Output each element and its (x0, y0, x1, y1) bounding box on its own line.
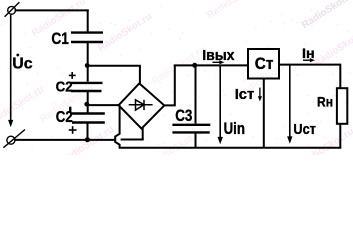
capacitor C1 (71, 33, 103, 42)
background dither speckles (0, 0, 353, 155)
wire bridge bottom to rail (142, 128, 144, 139)
wire output top rail to stabilizer (174, 64, 248, 66)
svg-text:C2: C2 (56, 79, 73, 95)
wire bridge left vertex down with hop over rail (115, 105, 119, 148)
watermark RadioSkot.ru tiles (30, 0, 88, 39)
svg-text:Iвых: Iвых (202, 48, 234, 64)
block U1 stabilizer box (248, 49, 279, 79)
wire C2 to C2' (87, 92, 89, 113)
wire stabilizer to lower rail (Ict) (263, 79, 265, 148)
svg-text:Ст: Ст (255, 55, 274, 73)
svg-text:Uст: Uст (293, 121, 316, 138)
wire lower return rail (119, 147, 342, 149)
wire stabilizer output to load (279, 65, 340, 89)
arrow Uст (voltage arrow) (289, 66, 291, 138)
svg-text:Uin: Uin (224, 120, 245, 138)
wire top rail (15, 9, 89, 11)
node C (C2' / rail junction) (85, 137, 90, 142)
wire Rн to lower rail (339, 124, 341, 148)
capacitor C2 (71, 83, 103, 91)
wire C2' to bottom rail (87, 124, 89, 140)
svg-text:C1: C1 (51, 29, 69, 48)
diode bridge VD1 (diamond) (119, 83, 165, 128)
arrow Uin (voltage arrow) (219, 66, 221, 138)
arrow Iвых (current arrow) (213, 61, 221, 63)
wire node B to bridge left (87, 104, 119, 106)
arrow Uc (source voltage arrow) (10, 15, 12, 121)
terminal X2 (bottom input) (3, 130, 25, 148)
wire node A to bridge top (87, 66, 140, 83)
svg-text:Uc: Uc (12, 55, 33, 72)
wire C3 to lower rail (195, 133, 197, 147)
svg-text:C3: C3 (175, 107, 192, 125)
node D (C3 tap) (192, 63, 197, 68)
svg-text:Rн: Rн (317, 94, 333, 110)
capacitor C2' (72, 114, 105, 123)
resistor Rн (337, 88, 347, 124)
terminal X1 (top input) (5, 2, 20, 17)
svg-text:Iст: Iст (235, 86, 255, 103)
wire upper ground rail (terminal to bridge) (15, 139, 115, 141)
wire node D to C3 (195, 65, 197, 123)
node B (C2/C2' junction) (84, 102, 89, 107)
wire C1 to C2 (87, 43, 89, 82)
arrow Iн (current arrow) (303, 59, 311, 61)
node A (C1/C2 junction) (85, 63, 90, 68)
capacitor C3 (172, 125, 210, 133)
wire drop to C1 (87, 9, 89, 31)
arrow Iст (small down arrow) (259, 88, 261, 98)
wire bridge right vertex to output (164, 65, 175, 106)
plus mark C2 (69, 72, 76, 79)
plus mark C2' (69, 126, 77, 134)
diode symbol inside bridge (129, 100, 153, 110)
svg-text:Iн: Iн (302, 46, 315, 61)
